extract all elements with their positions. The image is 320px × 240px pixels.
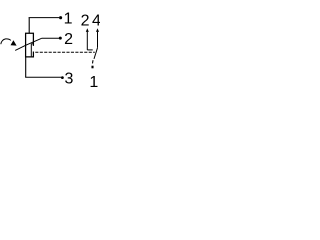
- rotation arrow arc: [1, 39, 11, 44]
- inner contact top tick: [31, 43, 33, 45]
- wire bottom lead: [25, 57, 27, 77]
- arrowhead under label 4: [96, 28, 99, 32]
- leader dot 1: [59, 16, 62, 19]
- rotation arrowhead: [11, 40, 17, 45]
- leader dot 2: [59, 37, 62, 40]
- component body rectangle: [26, 33, 34, 57]
- svg-text:3: 3: [65, 71, 74, 88]
- phantom diagonal right: [94, 48, 98, 59]
- svg-text:1: 1: [64, 11, 73, 28]
- svg-text:1: 1: [89, 74, 98, 91]
- leader line to 1: [29, 17, 59, 19]
- dashed phantom line: [35, 51, 95, 53]
- leader shaft under label 4: [97, 32, 99, 48]
- background: [0, 0, 100, 100]
- arrowhead under label 2: [86, 28, 89, 32]
- leader shaft under label 2: [86, 32, 88, 50]
- phantom dash a: [92, 60, 95, 63]
- svg-text:4: 4: [92, 12, 100, 29]
- phantom dash b: [91, 66, 93, 69]
- diagonal arm: [15, 38, 41, 50]
- leader dot 3: [61, 76, 64, 79]
- svg-text:2: 2: [81, 12, 90, 29]
- leader foot under label 2: [87, 49, 92, 51]
- leader line to 2: [42, 37, 59, 39]
- svg-text:2: 2: [64, 31, 73, 48]
- wire top lead: [28, 18, 30, 34]
- leader line to 3: [25, 76, 61, 78]
- inner contact line: [30, 44, 32, 57]
